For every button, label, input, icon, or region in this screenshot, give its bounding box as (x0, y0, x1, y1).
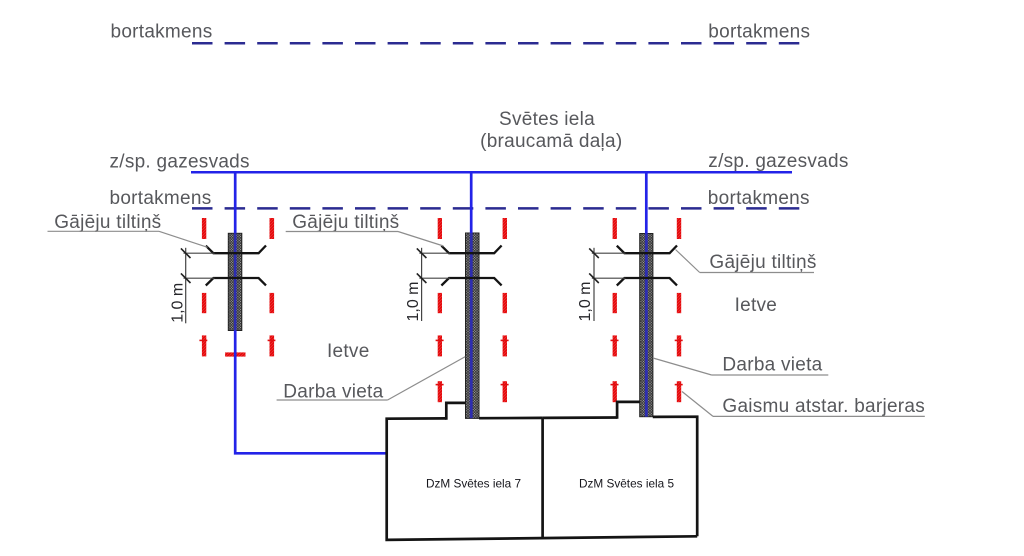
gas riser 2 (470, 172, 473, 233)
dimension structure 2 (421, 248, 423, 321)
footbridge structure 2 top (441, 246, 501, 254)
svg-text:bortakmens: bortakmens (708, 22, 810, 43)
building 7 outline (387, 418, 698, 540)
barrier dashes structure 2 left column (438, 218, 442, 239)
svg-text:bortakmens: bortakmens (708, 188, 810, 209)
barrier horizontal dash bottom structure 1 (225, 352, 245, 356)
svg-text:bortakmens: bortakmens (110, 188, 212, 209)
barrier dashes structure 2 right column (503, 218, 507, 239)
svg-text:Darba vieta: Darba vieta (722, 354, 822, 375)
svg-text:Gājēju tiltiņš: Gājēju tiltiņš (54, 212, 161, 233)
gas main line (191, 171, 792, 174)
svg-text:1,0 m: 1,0 m (169, 283, 186, 323)
footbridge structure 3 bottom (617, 278, 677, 286)
gas riser 3 (645, 172, 648, 233)
barrier tick marks structure 3 rows 3-4 (611, 339, 619, 341)
svg-text:Ietve: Ietve (327, 341, 370, 362)
barrier tick marks structure 2 rows 3-4 (436, 339, 444, 341)
svg-text:Gājēju tiltiņš: Gājēju tiltiņš (709, 252, 816, 273)
dimension structure 3 (593, 248, 595, 321)
svg-text:Svētes iela: Svētes iela (499, 109, 595, 130)
svg-text:z/sp. gazesvads: z/sp. gazesvads (110, 151, 250, 172)
work column 2 hatched (466, 233, 480, 418)
barrier dashes structure 3 left column (613, 218, 617, 239)
svg-text:bortakmens: bortakmens (111, 22, 213, 43)
svg-text:DzM Svētes iela 7: DzM Svētes iela 7 (426, 476, 521, 490)
svg-text:(braucamā daļa): (braucamā daļa) (480, 131, 622, 152)
footbridge structure 2 bottom (441, 278, 501, 286)
svg-text:Gājēju tiltiņš: Gājēju tiltiņš (292, 212, 399, 233)
footbridge structure 1 bottom (206, 278, 266, 286)
work column 1 hatched (228, 233, 242, 330)
svg-text:Ietve: Ietve (735, 295, 778, 316)
svg-text:z/sp. gazesvads: z/sp. gazesvads (708, 151, 848, 172)
svg-text:Darba vieta: Darba vieta (283, 381, 383, 402)
building 5 outline (543, 416, 618, 419)
gas riser 1 with elbow to building (234, 172, 237, 233)
work column 3 hatched (640, 234, 653, 417)
svg-text:1,0 m: 1,0 m (405, 281, 422, 321)
dimension structure 1 (185, 248, 187, 323)
wire kerb dashed line mid (192, 207, 800, 210)
svg-text:1,0 m: 1,0 m (577, 281, 594, 321)
barrier dashes structure 1 left column (202, 218, 206, 239)
svg-text:DzM Svētes iela 5: DzM Svētes iela 5 (579, 476, 675, 490)
building shared wall (541, 418, 544, 538)
barrier dashes structure 3 right column (677, 218, 681, 239)
footbridge structure 3 top (617, 246, 677, 254)
footbridge structure 1 top (206, 246, 266, 254)
svg-text:Gaismu atstar. barjeras: Gaismu atstar. barjeras (722, 396, 925, 417)
barrier dashes structure 1 right column (270, 218, 275, 239)
barrier tick marks structure 1 row 3 (199, 339, 207, 341)
wire kerb dashed line top (192, 42, 800, 45)
